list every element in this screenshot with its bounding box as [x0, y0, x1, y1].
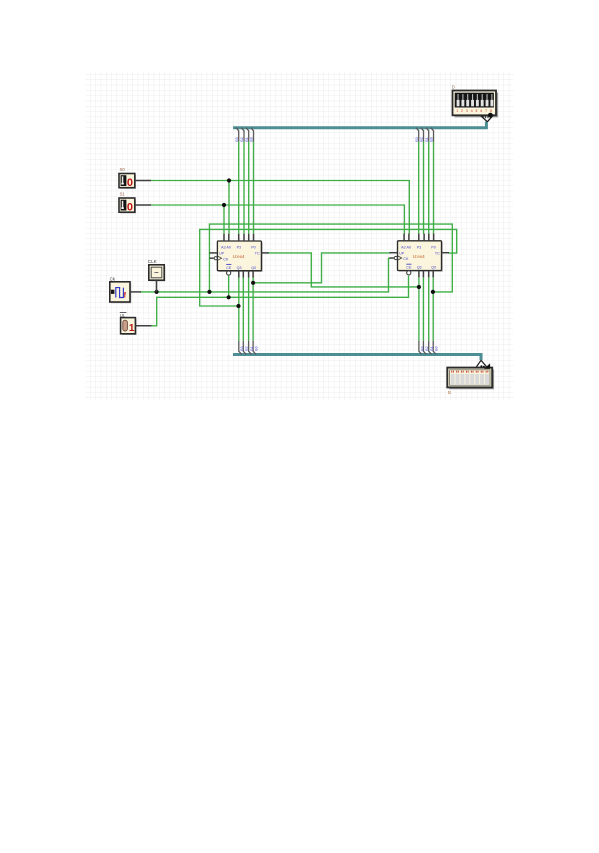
svg-text:S: S	[448, 390, 451, 396]
svg-text:4: 4	[471, 109, 473, 113]
bus entry bottom x=418.9	[419, 341, 422, 355]
svg-text:B2: B2	[420, 137, 424, 141]
svg-text:UL: UL	[120, 313, 126, 318]
bus entry bottom x=253.1	[253, 341, 256, 355]
svg-text:B1: B1	[430, 346, 434, 350]
wire Q output drop at x=433.2	[432, 277, 434, 341]
counter U1 4-bit	[209, 234, 269, 278]
bus entry top x=418.7	[416, 128, 419, 142]
node CE U1 tap	[227, 295, 231, 299]
svg-text:B0: B0	[430, 137, 434, 141]
wire Q output drop at x=428.7	[428, 277, 430, 341]
wire Q output drop at x=238.8	[238, 277, 240, 341]
svg-text:7: 7	[485, 109, 487, 113]
svg-text:S1: S1	[120, 192, 126, 197]
wire bus drop at x=244.0	[243, 141, 245, 234]
bus BOTTOM data bus	[233, 355, 481, 361]
node Q0 U1 tap	[251, 281, 255, 285]
wire bus drop at x=248.7	[248, 141, 250, 234]
bus entry top x=244.0	[241, 128, 244, 142]
svg-text:CLK: CLK	[148, 259, 158, 264]
wire bus drop at x=428.7	[428, 141, 430, 234]
svg-text:B3: B3	[420, 346, 424, 350]
bus entry top x=428.7	[426, 128, 429, 142]
node S1 tap	[222, 203, 226, 207]
svg-text:5: 5	[476, 109, 478, 113]
svg-text:B3: B3	[235, 137, 239, 141]
logicstate S0	[120, 175, 136, 189]
node Q0 U2 tap	[431, 290, 435, 294]
svg-text:2: 2	[461, 109, 463, 113]
svg-text:B1: B1	[425, 137, 429, 141]
wire Q output drop at x=248.6	[248, 277, 250, 341]
wire Q output drop at x=423.4	[422, 277, 424, 341]
bus entry top x=238.7	[236, 128, 239, 142]
wire Q output drop at x=243.3	[242, 277, 244, 341]
svg-text:B0: B0	[250, 137, 254, 141]
logicstate S1	[120, 199, 136, 213]
wire net Q0-U1 to UP-U2	[253, 253, 391, 283]
clock button CLK	[148, 259, 166, 292]
bus TOP data bus	[233, 122, 486, 128]
node Q3 U1 tap	[236, 304, 240, 308]
bus entry top x=248.7	[246, 128, 249, 142]
svg-text:B2: B2	[245, 346, 249, 350]
logicstate UL load	[120, 312, 152, 335]
counter U2 4-bit	[390, 234, 450, 278]
svg-text:B1: B1	[245, 137, 249, 141]
wire net Q3-U1 to TC-U2	[200, 229, 457, 306]
dip switch D	[452, 84, 498, 121]
bus entry bottom x=423.4	[423, 341, 426, 355]
wire Q output drop at x=418.9	[418, 277, 420, 341]
bus entry top x=253.5	[251, 128, 254, 142]
wire net CE-U1 drop	[228, 276, 230, 298]
wire bus drop at x=418.7	[418, 141, 420, 234]
svg-text:S0: S0	[120, 167, 126, 172]
node S0 tap	[227, 178, 231, 182]
wire bus drop at x=433.5	[433, 141, 435, 234]
node Q3 U2 tap	[417, 285, 421, 289]
svg-text:6: 6	[480, 109, 482, 113]
svg-text:B0: B0	[435, 346, 439, 350]
bus entry top x=423.5	[421, 128, 424, 142]
svg-text:8: 8	[490, 109, 492, 113]
svg-text:B3: B3	[415, 137, 419, 141]
wire net TC-U1 to Q3-U2	[268, 253, 419, 287]
svg-text:1: 1	[456, 109, 458, 113]
svg-text:D: D	[452, 84, 455, 89]
svg-text:Ck: Ck	[110, 276, 116, 281]
bus entry bottom x=243.3	[243, 341, 246, 355]
bus entry top x=433.5	[431, 128, 434, 142]
bus entry bottom x=433.2	[433, 341, 436, 355]
svg-text:B2: B2	[240, 137, 244, 141]
wire S1 branch to U1	[223, 205, 225, 234]
svg-text:0: 0	[127, 177, 133, 189]
wire bus drop at x=423.5	[423, 141, 425, 234]
svg-text:B3: B3	[240, 346, 244, 350]
clock generator Ck	[110, 276, 141, 303]
svg-text:B2: B2	[425, 346, 429, 350]
bus entry bottom x=238.8	[239, 341, 242, 355]
wire bus drop at x=238.7	[238, 141, 240, 234]
wire net load UL to CE pins	[152, 276, 409, 326]
bus entry bottom x=428.7	[429, 341, 432, 355]
wire S1 to counters	[151, 205, 404, 234]
wire bus drop at x=253.5	[253, 141, 255, 234]
wire S0 branch to U1	[228, 181, 230, 234]
svg-text:1: 1	[129, 323, 135, 334]
bus entry bottom x=248.6	[249, 341, 252, 355]
svg-text:3: 3	[466, 109, 468, 113]
wire net Q0-U2 feedback to U1	[209, 224, 452, 292]
svg-text:B1: B1	[250, 346, 254, 350]
svg-text:B0: B0	[255, 346, 259, 350]
wire S0 to counters P inputs	[151, 181, 409, 234]
node CLK button tap	[155, 290, 159, 294]
svg-text:0: 0	[127, 202, 133, 214]
wire Q output drop at x=253.1	[252, 277, 254, 341]
bar display S	[447, 360, 494, 396]
node CLK U1 tap	[207, 290, 211, 294]
wire net CLK distribution	[140, 258, 391, 292]
